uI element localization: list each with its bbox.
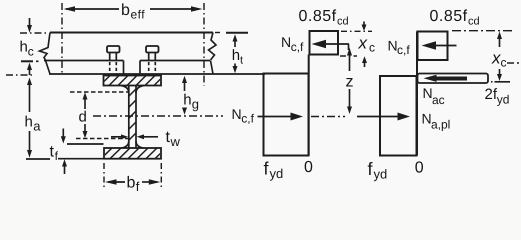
dimension x_c bottom arrow (right)	[499, 69, 501, 75]
concrete slab left break edge	[40, 33, 51, 61]
dimension x_c bottom arrow (middle)	[362, 56, 367, 63]
svg-text:h: h	[183, 92, 191, 109]
wire NA dash-dot right of middle block	[311, 116, 345, 118]
svg-text:N: N	[232, 106, 242, 122]
dimension h_c top arrow	[29, 18, 31, 27]
dimension h_c bottom arrow	[27, 63, 32, 71]
steel beam top flange	[104, 76, 162, 86]
dimension h_a bottom arrow	[29, 131, 31, 151]
dimension h_a top arrow	[27, 78, 32, 86]
wire N_ac thick arrow inside band	[424, 75, 437, 82]
dimension t_w left arrow	[111, 136, 122, 138]
svg-text:0: 0	[304, 159, 313, 176]
svg-text:c,f: c,f	[397, 43, 410, 57]
steel beam bottom flange	[104, 148, 161, 159]
wire N_c,f force arrow	[258, 116, 293, 118]
wire hook down to z line	[348, 44, 350, 50]
svg-text:c,f: c,f	[241, 112, 254, 126]
wire h_c top witness	[20, 32, 46, 34]
dimension h_t top arrow	[233, 34, 238, 41]
svg-text:f: f	[136, 179, 140, 194]
concrete slab top line	[50, 32, 213, 34]
dimension b_eff line	[66, 8, 119, 10]
dimension z lower arrow	[349, 89, 351, 107]
stud 2 hidden shank dashed	[148, 62, 150, 73]
svg-text:f: f	[55, 149, 59, 163]
stress block steel (right diagram)	[380, 76, 417, 156]
stud 1 shank	[109, 53, 111, 61]
svg-text:0.85f: 0.85f	[430, 8, 468, 25]
web fillets	[121, 86, 129, 94]
dimension x_c top arrow (right)	[497, 32, 502, 40]
svg-text:w: w	[170, 134, 181, 149]
concrete slab right break edge	[209, 33, 217, 61]
stress block steel (middle diagram)	[264, 74, 309, 156]
wire N_c,f force arrow (middle)	[312, 40, 327, 48]
dimension d bottom witness dashed	[76, 138, 128, 140]
svg-text:h: h	[232, 47, 240, 64]
dimension t_w right arrow	[137, 134, 144, 139]
stud 2 head	[146, 46, 159, 53]
svg-text:h: h	[25, 114, 33, 131]
dimension h_t bottom arrow	[234, 64, 236, 68]
slab rib gap edge left	[123, 61, 125, 75]
concrete slab mid line	[44, 60, 124, 62]
dimension d top witness dashed	[70, 91, 128, 93]
stud 1 hidden shank dashed	[109, 62, 111, 73]
top flange hatching	[100, 76, 164, 86]
svg-text:h: h	[20, 39, 28, 56]
dimension z upper arrow	[347, 48, 352, 56]
dimension b_f line	[105, 179, 117, 185]
wire dash-dot far right at block bottom level	[507, 62, 521, 64]
steel beam web	[128, 86, 130, 149]
dimension t_f top arrow	[62, 129, 64, 138]
wire N_a,pl force arrow	[357, 116, 399, 118]
wire h_a top witness	[6, 74, 34, 76]
wire N_c,f force arrow (right)	[422, 41, 437, 49]
svg-text:ac: ac	[432, 93, 445, 107]
wire neutral-axis dash-dot through beam	[93, 115, 223, 117]
wire t_f top witness	[67, 143, 104, 145]
stress block concrete (middle diagram)	[310, 31, 339, 55]
svg-text:d: d	[79, 109, 87, 126]
svg-text:eff: eff	[131, 8, 146, 22]
wire h_a bottom witness	[26, 158, 50, 160]
svg-text:z: z	[346, 74, 354, 91]
svg-text:x: x	[358, 34, 368, 53]
node centerline right (b_eff witness)	[203, 3, 205, 86]
svg-text:c: c	[28, 45, 34, 59]
dimension d top arrow	[83, 92, 88, 99]
svg-text:0: 0	[415, 160, 424, 177]
stud 2 shank	[148, 53, 150, 61]
svg-text:c,f: c,f	[291, 40, 304, 54]
svg-text:N: N	[281, 34, 291, 50]
node zero line (middle)	[308, 55, 310, 156]
svg-text:a: a	[33, 119, 41, 134]
wire x_c bottom witness (right)	[491, 81, 493, 83]
svg-text:x: x	[491, 49, 501, 68]
node centerline left (b_eff witness)	[61, 3, 63, 74]
dimension b_f witness lines	[103, 163, 105, 189]
dimension d bottom arrow	[84, 124, 86, 132]
svg-text:c: c	[501, 56, 507, 70]
dimension t_f bottom arrow	[62, 159, 67, 166]
svg-text:yd: yd	[270, 166, 284, 181]
svg-text:0.85f: 0.85f	[299, 8, 337, 25]
svg-text:cd: cd	[337, 16, 349, 28]
dimension h_g top arrow	[182, 76, 187, 83]
wire x_c top witness (right)	[452, 30, 515, 32]
svg-text:c: c	[369, 41, 375, 55]
node zero line (right)	[416, 32, 418, 156]
wire flange bottom line extension	[58, 158, 104, 160]
wire h_c bottom witness	[21, 60, 33, 62]
svg-text:yd: yd	[497, 93, 510, 107]
svg-text:g: g	[192, 97, 199, 112]
svg-text:b: b	[127, 175, 136, 192]
slab rib gap edge right	[139, 61, 141, 75]
svg-text:yd: yd	[374, 167, 388, 182]
dimension h_g bottom arrow	[184, 108, 186, 110]
svg-text:b: b	[121, 2, 130, 19]
svg-text:t: t	[240, 55, 243, 67]
stress band steel compression overlay (right)	[418, 74, 489, 84]
wire x_c bottom witness (middle)	[340, 55, 357, 57]
wire x_c top witness (middle)	[341, 30, 372, 32]
svg-text:a,pl: a,pl	[431, 118, 450, 132]
svg-text:cd: cd	[468, 16, 480, 28]
stress block concrete (right diagram)	[418, 32, 448, 61]
bottom flange hatching	[101, 148, 166, 159]
concrete slab bottom line	[49, 73, 265, 75]
dimension h_t top bar	[226, 32, 248, 34]
stud 1 head	[107, 46, 120, 53]
web hatching	[129, 89, 136, 140]
dimension x_c top arrow (middle)	[363, 22, 365, 27]
